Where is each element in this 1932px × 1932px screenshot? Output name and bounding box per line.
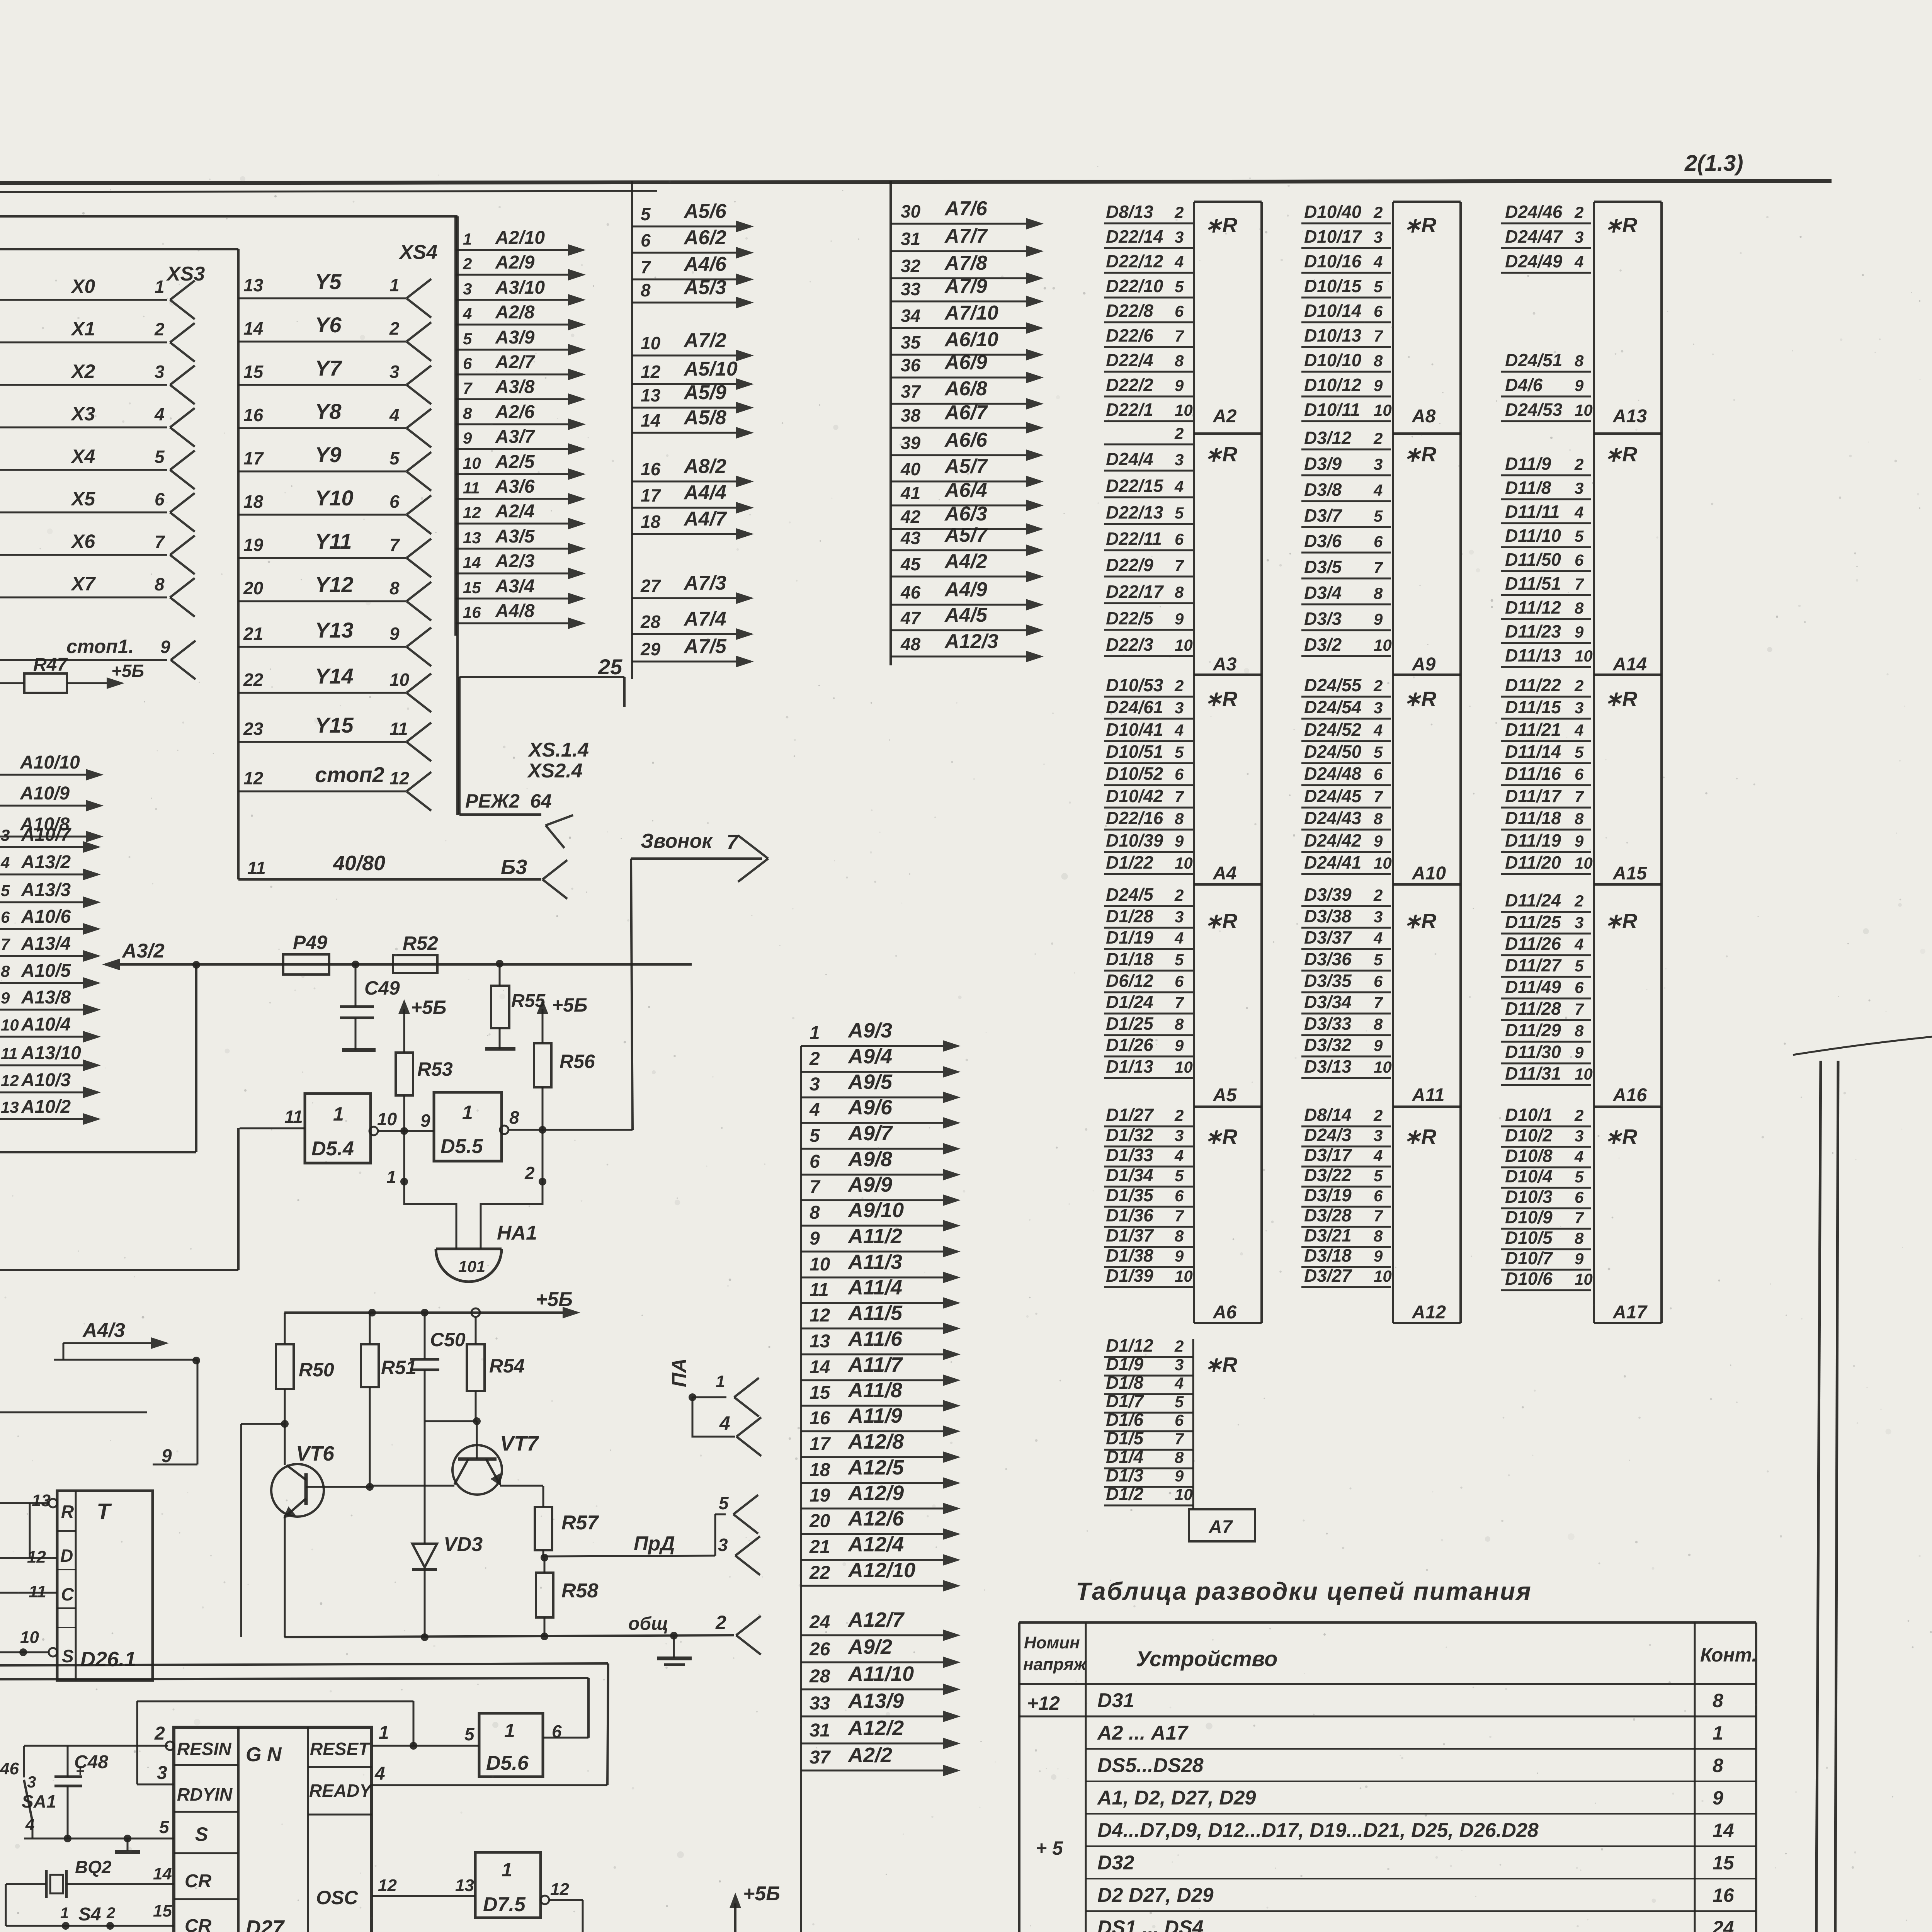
svg-text:D3/33: D3/33: [1304, 1014, 1352, 1034]
svg-text:A12/10: A12/10: [847, 1559, 915, 1582]
svg-text:10: 10: [463, 454, 481, 472]
svg-text:3: 3: [1374, 908, 1383, 926]
svg-text:XS3: XS3: [166, 263, 205, 285]
svg-text:D3/19: D3/19: [1304, 1185, 1352, 1205]
svg-text:Y9: Y9: [315, 442, 342, 467]
svg-text:VT6: VT6: [296, 1442, 335, 1465]
svg-text:10: 10: [1575, 401, 1593, 419]
svg-text:12: 12: [463, 503, 481, 522]
svg-text:9: 9: [1374, 376, 1383, 395]
svg-text:D1/12: D1/12: [1106, 1335, 1153, 1355]
svg-text:D3/39: D3/39: [1304, 884, 1352, 905]
svg-text:8: 8: [1374, 810, 1383, 828]
svg-text:стоп1.: стоп1.: [66, 636, 134, 657]
svg-text:7: 7: [155, 532, 165, 552]
svg-text:S: S: [62, 1646, 74, 1666]
svg-text:A12/9: A12/9: [847, 1481, 904, 1505]
svg-text:D3/28: D3/28: [1304, 1205, 1352, 1225]
svg-text:5: 5: [1175, 504, 1184, 522]
svg-text:2: 2: [1373, 677, 1383, 695]
svg-text:11: 11: [389, 719, 408, 739]
svg-text:A2/8: A2/8: [495, 302, 535, 323]
svg-text:12: 12: [810, 1305, 830, 1326]
svg-text:5: 5: [463, 330, 472, 348]
svg-text:2: 2: [809, 1049, 820, 1069]
svg-text:Таблица разводки цепей пита: Таблица разводки цепей питания: [1076, 1577, 1532, 1605]
svg-text:3: 3: [1, 826, 10, 844]
svg-text:∗R: ∗R: [1404, 1125, 1436, 1148]
svg-text:D27: D27: [246, 1916, 285, 1932]
svg-text:4: 4: [1574, 721, 1583, 739]
svg-text:1: 1: [504, 1720, 515, 1742]
svg-text:A12/8: A12/8: [847, 1430, 904, 1453]
svg-text:12: 12: [389, 768, 410, 788]
svg-text:D24/47: D24/47: [1505, 226, 1563, 247]
svg-text:9: 9: [1175, 1036, 1184, 1054]
svg-text:A15: A15: [1612, 863, 1647, 884]
svg-text:1: 1: [379, 1723, 389, 1743]
svg-text:6: 6: [1374, 972, 1383, 990]
svg-text:CR: CR: [185, 1871, 212, 1891]
svg-text:A6/4: A6/4: [944, 479, 987, 502]
svg-text:8: 8: [641, 280, 651, 300]
svg-text:D1/13: D1/13: [1106, 1056, 1153, 1077]
svg-text:9: 9: [389, 624, 400, 644]
svg-text:3: 3: [1175, 451, 1184, 469]
svg-text:3: 3: [27, 1773, 36, 1791]
svg-text:A9/6: A9/6: [847, 1096, 893, 1119]
svg-text:D3/34: D3/34: [1304, 992, 1352, 1012]
svg-text:+ 5: + 5: [1036, 1837, 1063, 1859]
svg-text:10: 10: [389, 670, 410, 690]
svg-text:9: 9: [1175, 832, 1184, 850]
svg-text:2: 2: [1373, 203, 1383, 221]
svg-text:18: 18: [641, 512, 661, 532]
svg-text:10: 10: [1175, 401, 1193, 419]
svg-text:7: 7: [1175, 993, 1184, 1012]
svg-text:10: 10: [1374, 401, 1392, 419]
svg-text:7: 7: [1175, 556, 1184, 575]
svg-text:D24/51: D24/51: [1505, 350, 1562, 370]
svg-text:64: 64: [530, 790, 552, 812]
svg-text:1: 1: [386, 1167, 396, 1187]
svg-text:8: 8: [1374, 352, 1383, 370]
svg-text:16: 16: [810, 1408, 830, 1429]
svg-text:A7/6: A7/6: [944, 197, 988, 220]
svg-text:9: 9: [1, 989, 10, 1007]
svg-text:6: 6: [1575, 551, 1584, 569]
svg-text:+5Б: +5Б: [552, 994, 587, 1016]
svg-text:CR: CR: [185, 1916, 212, 1932]
svg-text:A3/7: A3/7: [495, 427, 536, 447]
svg-text:4: 4: [1373, 721, 1383, 739]
svg-text:9: 9: [160, 637, 170, 657]
svg-text:C50: C50: [430, 1329, 466, 1350]
svg-text:D32: D32: [1097, 1852, 1134, 1874]
svg-text:9: 9: [1575, 623, 1584, 641]
svg-text:4: 4: [1373, 1146, 1383, 1165]
svg-text:RESET: RESET: [310, 1739, 371, 1759]
svg-text:R: R: [61, 1502, 74, 1522]
svg-text:27: 27: [640, 576, 662, 596]
svg-text:3: 3: [1175, 228, 1184, 246]
svg-text:7: 7: [463, 379, 473, 397]
svg-text:2: 2: [1574, 1106, 1583, 1124]
svg-text:8: 8: [810, 1202, 820, 1223]
svg-text:13: 13: [455, 1876, 474, 1895]
svg-text:6: 6: [1175, 1411, 1184, 1429]
svg-text:D8/14: D8/14: [1304, 1105, 1352, 1125]
svg-text:D1/7: D1/7: [1106, 1391, 1145, 1411]
svg-text:10: 10: [1175, 1058, 1193, 1076]
svg-text:D22/2: D22/2: [1106, 375, 1153, 395]
svg-text:11: 11: [463, 479, 480, 497]
svg-text:14: 14: [463, 553, 481, 571]
svg-text:6: 6: [1374, 1187, 1383, 1205]
svg-text:D3/18: D3/18: [1304, 1245, 1352, 1265]
svg-text:17: 17: [641, 485, 662, 505]
svg-text:1: 1: [810, 1023, 820, 1043]
svg-text:D10/7: D10/7: [1505, 1248, 1553, 1268]
svg-text:+5Б: +5Б: [743, 1883, 780, 1905]
svg-text:A6: A6: [1213, 1302, 1237, 1323]
svg-text:33: 33: [810, 1693, 830, 1714]
svg-text:43: 43: [900, 528, 921, 548]
svg-text:Номин: Номин: [1024, 1633, 1080, 1652]
svg-text:1: 1: [60, 1905, 69, 1922]
svg-text:7: 7: [1575, 1209, 1584, 1227]
svg-text:A12: A12: [1412, 1302, 1446, 1323]
svg-text:2: 2: [1174, 1337, 1184, 1355]
svg-text:2: 2: [715, 1612, 726, 1633]
svg-text:D1/22: D1/22: [1106, 852, 1153, 872]
svg-text:7: 7: [1575, 787, 1584, 806]
svg-text:2(1.3): 2(1.3): [1684, 151, 1743, 176]
svg-text:∗R: ∗R: [1605, 687, 1637, 711]
svg-text:14: 14: [243, 318, 263, 338]
svg-text:A3/2: A3/2: [121, 940, 165, 962]
svg-text:A4/2: A4/2: [944, 550, 987, 573]
svg-text:A6/8: A6/8: [944, 378, 987, 400]
svg-text:7: 7: [1175, 1207, 1184, 1225]
svg-text:D1/35: D1/35: [1106, 1185, 1154, 1205]
svg-text:A2/2: A2/2: [847, 1743, 892, 1767]
svg-text:А2 ... А17: А2 ... А17: [1097, 1722, 1189, 1744]
svg-text:A2/3: A2/3: [495, 551, 535, 571]
svg-text:5: 5: [1575, 1168, 1584, 1186]
svg-text:15: 15: [810, 1383, 831, 1403]
svg-text:6: 6: [389, 492, 400, 512]
svg-text:22: 22: [809, 1563, 830, 1583]
svg-text:4: 4: [1574, 935, 1583, 953]
svg-text:6: 6: [463, 354, 472, 372]
svg-text:10: 10: [810, 1254, 830, 1275]
svg-text:6: 6: [1175, 302, 1184, 320]
svg-text:10: 10: [1374, 1267, 1392, 1285]
svg-text:9: 9: [1374, 610, 1383, 628]
svg-text:25: 25: [598, 655, 622, 679]
svg-text:D11/25: D11/25: [1505, 912, 1561, 932]
svg-text:A2/5: A2/5: [495, 452, 535, 472]
svg-text:2: 2: [1574, 677, 1583, 695]
svg-text:13: 13: [463, 529, 481, 547]
svg-text:7: 7: [1575, 1000, 1584, 1018]
svg-text:5: 5: [1575, 743, 1584, 761]
svg-text:D11/20: D11/20: [1505, 852, 1561, 872]
svg-text:D2 D27, D29: D2 D27, D29: [1097, 1884, 1214, 1906]
svg-text:A11: A11: [1412, 1085, 1445, 1105]
svg-text:5: 5: [1374, 743, 1383, 761]
svg-text:D22/12: D22/12: [1106, 251, 1163, 271]
svg-text:A2: A2: [1213, 406, 1237, 427]
svg-text:D11/12: D11/12: [1505, 597, 1561, 617]
svg-text:D4/6: D4/6: [1505, 375, 1543, 395]
svg-text:13: 13: [243, 275, 264, 295]
svg-text:D24/45: D24/45: [1304, 786, 1362, 806]
svg-text:D24/48: D24/48: [1304, 764, 1362, 784]
svg-text:D22/9: D22/9: [1106, 555, 1153, 575]
svg-text:A4/4: A4/4: [683, 481, 726, 504]
svg-text:19: 19: [243, 535, 264, 555]
svg-text:D1/3: D1/3: [1106, 1465, 1144, 1485]
svg-text:A11/4: A11/4: [847, 1276, 902, 1299]
svg-text:9: 9: [1713, 1787, 1723, 1809]
svg-text:A11/8: A11/8: [847, 1379, 902, 1402]
svg-text:18: 18: [243, 492, 264, 512]
svg-text:∗R: ∗R: [1605, 910, 1637, 933]
svg-text:A7/2: A7/2: [683, 329, 726, 352]
svg-text:4: 4: [809, 1100, 820, 1120]
svg-text:1: 1: [463, 230, 472, 248]
svg-text:2: 2: [1574, 203, 1583, 221]
svg-text:X1: X1: [70, 318, 95, 340]
svg-text:X2: X2: [70, 361, 95, 382]
svg-text:4: 4: [1574, 503, 1583, 521]
svg-text:РЕЖ2: РЕЖ2: [465, 790, 520, 812]
svg-text:6: 6: [1175, 765, 1184, 783]
svg-text:A2/9: A2/9: [495, 252, 535, 273]
svg-text:D22/3: D22/3: [1106, 634, 1153, 655]
svg-text:D24/52: D24/52: [1304, 719, 1362, 740]
svg-text:2: 2: [1574, 892, 1583, 910]
svg-text:38: 38: [901, 405, 921, 425]
svg-text:Y7: Y7: [315, 356, 342, 380]
svg-text:D11/27: D11/27: [1505, 955, 1562, 975]
svg-text:46: 46: [0, 1759, 19, 1778]
svg-text:+: +: [76, 1763, 84, 1779]
svg-text:8: 8: [1175, 1448, 1184, 1466]
svg-text:D22/15: D22/15: [1106, 476, 1164, 496]
svg-text:D1/32: D1/32: [1106, 1125, 1153, 1145]
svg-text:A3/9: A3/9: [495, 327, 535, 348]
svg-text:6: 6: [155, 489, 165, 509]
svg-text:Б3: Б3: [501, 855, 527, 879]
svg-text:A3: A3: [1213, 654, 1237, 675]
svg-text:A10/4: A10/4: [21, 1014, 71, 1035]
svg-text:D1/26: D1/26: [1106, 1035, 1153, 1055]
svg-text:∗R: ∗R: [1605, 214, 1637, 237]
svg-text:A12/4: A12/4: [847, 1533, 904, 1556]
svg-text:6: 6: [1374, 765, 1383, 783]
svg-text:∗R: ∗R: [1205, 1125, 1237, 1148]
svg-text:Y13: Y13: [315, 618, 354, 642]
svg-text:7: 7: [1374, 1207, 1383, 1225]
svg-text:C: C: [61, 1584, 74, 1604]
svg-text:D11/9: D11/9: [1505, 454, 1551, 474]
svg-text:A10/6: A10/6: [21, 906, 71, 927]
svg-text:D10/51: D10/51: [1106, 742, 1163, 762]
svg-text:28: 28: [809, 1666, 830, 1687]
svg-text:10: 10: [1374, 854, 1392, 872]
svg-text:A10/10: A10/10: [20, 752, 80, 773]
svg-text:A2/4: A2/4: [495, 501, 534, 522]
svg-text:D3/9: D3/9: [1304, 454, 1342, 474]
svg-text:A10/3: A10/3: [21, 1070, 71, 1090]
svg-text:3: 3: [1374, 699, 1383, 717]
svg-text:D11/30: D11/30: [1505, 1042, 1561, 1062]
svg-text:A3/5: A3/5: [495, 526, 535, 547]
svg-text:D1/2: D1/2: [1106, 1484, 1144, 1504]
svg-text:11: 11: [1, 1044, 18, 1063]
svg-text:19: 19: [810, 1485, 830, 1506]
svg-text:A5/3: A5/3: [683, 276, 726, 299]
svg-text:8: 8: [389, 578, 400, 598]
svg-text:D22/5: D22/5: [1106, 608, 1154, 628]
svg-text:A5/7: A5/7: [944, 524, 988, 546]
svg-text:8: 8: [1575, 1022, 1584, 1040]
svg-text:D: D: [60, 1546, 73, 1566]
svg-text:5: 5: [1374, 951, 1383, 969]
svg-text:10: 10: [20, 1628, 39, 1647]
svg-text:D10/40: D10/40: [1304, 202, 1362, 222]
svg-text:A3/6: A3/6: [495, 476, 535, 497]
svg-text:3: 3: [155, 362, 165, 382]
svg-text:6: 6: [1175, 1187, 1184, 1205]
svg-text:1: 1: [502, 1859, 512, 1881]
svg-text:37: 37: [810, 1747, 831, 1768]
svg-text:X0: X0: [70, 276, 95, 297]
svg-text:D5.5: D5.5: [440, 1135, 483, 1158]
svg-text:8: 8: [1374, 1227, 1383, 1245]
svg-text:36: 36: [901, 355, 921, 375]
svg-text:14: 14: [1713, 1820, 1734, 1841]
svg-text:A7/5: A7/5: [683, 635, 727, 658]
svg-text:3: 3: [810, 1074, 820, 1095]
svg-text:A8/2: A8/2: [683, 455, 726, 478]
svg-text:D3/3: D3/3: [1304, 609, 1342, 629]
svg-text:40: 40: [900, 459, 921, 479]
svg-text:A9/4: A9/4: [847, 1045, 892, 1068]
svg-text:D1/39: D1/39: [1106, 1265, 1153, 1286]
svg-text:40/80: 40/80: [333, 852, 385, 875]
svg-text:5: 5: [1374, 1167, 1383, 1185]
svg-text:5: 5: [719, 1493, 729, 1513]
svg-text:A9/5: A9/5: [847, 1070, 893, 1094]
svg-text:10: 10: [1575, 1270, 1593, 1288]
svg-text:1: 1: [333, 1103, 344, 1125]
svg-text:A11/5: A11/5: [847, 1301, 903, 1325]
svg-text:15: 15: [463, 578, 481, 597]
svg-text:D10/10: D10/10: [1304, 350, 1362, 370]
svg-text:D3/37: D3/37: [1304, 927, 1352, 947]
svg-text:39: 39: [901, 433, 921, 453]
svg-text:D11/24: D11/24: [1505, 890, 1561, 910]
svg-text:8: 8: [1175, 583, 1184, 601]
svg-text:3: 3: [1374, 455, 1383, 473]
svg-text:23: 23: [243, 719, 264, 739]
svg-text:13: 13: [810, 1331, 830, 1352]
svg-text:18: 18: [810, 1460, 830, 1480]
svg-text:∗R: ∗R: [1205, 214, 1237, 237]
svg-text:D6/12: D6/12: [1106, 971, 1153, 991]
svg-text:D1/36: D1/36: [1106, 1205, 1153, 1225]
svg-text:R53: R53: [417, 1058, 453, 1080]
svg-text:D10/41: D10/41: [1106, 719, 1163, 740]
svg-text:D24/49: D24/49: [1505, 251, 1563, 271]
svg-text:D10/15: D10/15: [1304, 276, 1362, 296]
svg-text:D10/2: D10/2: [1505, 1125, 1553, 1145]
svg-text:D10/53: D10/53: [1106, 675, 1163, 695]
svg-text:4: 4: [389, 405, 400, 425]
svg-text:D22/6: D22/6: [1106, 325, 1153, 345]
svg-text:1: 1: [389, 275, 400, 295]
svg-text:D24/43: D24/43: [1304, 808, 1362, 828]
svg-text:XS2.4: XS2.4: [527, 760, 583, 782]
svg-text:4: 4: [463, 304, 472, 323]
svg-text:XS.1.4: XS.1.4: [527, 739, 589, 761]
svg-text:20: 20: [809, 1511, 830, 1531]
svg-text:8: 8: [1175, 1227, 1184, 1245]
svg-text:10: 10: [1575, 647, 1593, 665]
svg-text:D1/18: D1/18: [1106, 949, 1153, 969]
svg-text:D24/5: D24/5: [1106, 884, 1154, 905]
svg-text:+5Б: +5Б: [411, 997, 446, 1018]
svg-text:4: 4: [719, 1412, 730, 1434]
svg-text:8: 8: [1575, 599, 1584, 617]
svg-text:Y11: Y11: [315, 529, 352, 553]
svg-text:7: 7: [1575, 575, 1584, 593]
svg-text:D1/34: D1/34: [1106, 1165, 1153, 1185]
svg-text:16: 16: [1713, 1884, 1735, 1906]
svg-text:BQ2: BQ2: [75, 1857, 112, 1877]
svg-text:1: 1: [716, 1372, 725, 1391]
svg-text:9: 9: [1175, 1467, 1184, 1485]
svg-text:3: 3: [1575, 913, 1583, 932]
svg-text:7: 7: [1374, 787, 1383, 806]
svg-text:X5: X5: [70, 488, 95, 510]
svg-text:20: 20: [243, 578, 264, 598]
svg-text:12: 12: [378, 1876, 397, 1895]
svg-text:3: 3: [1175, 908, 1184, 926]
svg-text:3: 3: [1575, 479, 1583, 497]
svg-text:8: 8: [1575, 810, 1584, 828]
svg-text:D11/26: D11/26: [1505, 934, 1561, 954]
svg-text:D5.4: D5.4: [311, 1138, 354, 1160]
svg-text:общ: общ: [628, 1614, 668, 1634]
svg-text:26: 26: [809, 1639, 830, 1660]
svg-text:8: 8: [1175, 1015, 1184, 1033]
svg-text:A7/10: A7/10: [944, 302, 998, 324]
svg-text:D3/32: D3/32: [1304, 1035, 1352, 1055]
svg-text:2: 2: [106, 1905, 115, 1922]
svg-text:D22/16: D22/16: [1106, 808, 1163, 828]
svg-text:ПА: ПА: [668, 1358, 690, 1387]
svg-text:24: 24: [1712, 1917, 1734, 1932]
svg-text:9: 9: [1575, 1043, 1584, 1061]
svg-text:9: 9: [810, 1228, 820, 1249]
svg-text:D11/28: D11/28: [1505, 998, 1561, 1019]
svg-text:10: 10: [1575, 1065, 1593, 1083]
